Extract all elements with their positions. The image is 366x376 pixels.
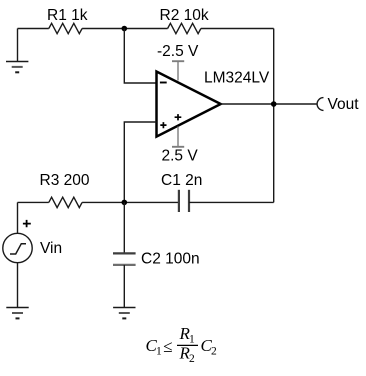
wire from R2 to right corner	[201, 28, 274, 30]
op-amp non-inverting input marker (plus)	[160, 122, 166, 128]
op-amp negative supply pin (top, -2.5 V)	[172, 61, 184, 80]
svg-text:2: 2	[211, 346, 217, 358]
wire Vin to bottom-left ground	[17, 263, 19, 308]
svg-text:≤: ≤	[163, 337, 172, 356]
source Vin circle	[3, 233, 32, 262]
wire from node A down to inverting input	[124, 29, 156, 84]
capacitor C1	[179, 190, 189, 212]
ground under Vin	[6, 308, 28, 319]
svg-text:LM324LV: LM324LV	[204, 70, 270, 87]
svg-text:R2 10k: R2 10k	[160, 7, 209, 24]
svg-text:2: 2	[189, 353, 195, 365]
op-amp U1 triangle	[157, 72, 221, 137]
svg-text:Vin: Vin	[40, 240, 62, 257]
node A: junction R1/R2/inverting branch	[122, 26, 128, 32]
ground under C2	[113, 308, 135, 319]
ground top-left	[6, 62, 28, 73]
wire op-amp output	[221, 103, 318, 105]
svg-text:R1 1k: R1 1k	[47, 7, 88, 24]
resistor R1	[49, 23, 82, 33]
node B: junction R3/C1/C2/non-inverting	[122, 200, 128, 206]
svg-text:Vout: Vout	[328, 96, 360, 113]
wire C2 to bottom ground	[123, 265, 125, 308]
op-amp positive supply marker (plus)	[175, 114, 182, 120]
svg-text:2.5 V: 2.5 V	[162, 148, 199, 165]
formula C1 <= (R1/R2) C2	[146, 324, 218, 365]
svg-text:1: 1	[189, 334, 195, 346]
node: output junction	[271, 101, 277, 107]
wire R3 to C1	[82, 201, 179, 203]
wire node B down to C2	[123, 202, 125, 253]
resistor R2	[168, 23, 201, 33]
wire C1 to right vertical	[189, 201, 274, 203]
source Vin waveform glyph	[10, 244, 26, 254]
wire right vertical (feedback)	[273, 29, 275, 203]
svg-text:R3 200: R3 200	[40, 172, 90, 189]
op-amp positive supply pin (bottom, 2.5 V)	[172, 127, 184, 147]
wire non-inverting input to node B	[124, 122, 156, 202]
wire left corner down to Vin	[17, 202, 19, 233]
resistor R3	[49, 197, 82, 207]
wire bottom: left corner to R3	[18, 201, 49, 203]
svg-text:1: 1	[156, 346, 162, 358]
svg-text:C2 100n: C2 100n	[141, 251, 200, 268]
terminal Vout	[317, 98, 323, 111]
source Vin polarity plus	[23, 220, 31, 227]
capacitor C2	[113, 253, 136, 265]
wire top horizontal from ground to R1	[18, 28, 49, 30]
svg-text:C1 2n: C1 2n	[161, 172, 202, 189]
svg-text:-2.5 V: -2.5 V	[157, 43, 199, 60]
op-amp inverting input marker (minus)	[160, 82, 167, 84]
wire left vertical to top ground	[17, 29, 19, 62]
wire between R1 and R2	[82, 28, 168, 30]
